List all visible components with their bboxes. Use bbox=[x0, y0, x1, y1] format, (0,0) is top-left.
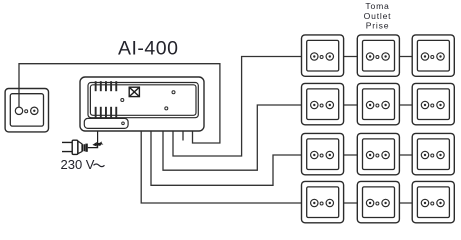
daisy-chain wires row 2 bbox=[344, 104, 413, 106]
amplifier screw hole A bbox=[121, 99, 124, 102]
output wire to outlet row 4 bbox=[141, 132, 301, 204]
amplifier crossed-box symbol bbox=[129, 87, 139, 96]
amplifier screw hole C bbox=[165, 107, 168, 110]
svg-text:AI-400: AI-400 bbox=[118, 38, 178, 60]
mains cord wire to amplifier bbox=[88, 132, 98, 148]
svg-text:Toma: Toma bbox=[365, 1, 389, 11]
TV outlet row 1 col 2 bbox=[357, 35, 399, 76]
TV outlet row 3 col 3 bbox=[412, 133, 454, 174]
TV outlet row 4 col 2 bbox=[357, 181, 399, 222]
TV outlet row 2 col 3 bbox=[412, 83, 454, 124]
TV outlet row 4 col 1 bbox=[302, 181, 344, 222]
mains plug P1 bbox=[62, 140, 87, 154]
svg-text:Outlet: Outlet bbox=[364, 11, 392, 21]
TV outlet row 3 col 1 bbox=[302, 133, 344, 174]
TV outlet row 2 col 1 bbox=[302, 83, 344, 124]
stub output wire bbox=[182, 132, 184, 141]
TV outlet row 3 col 2 bbox=[357, 133, 399, 174]
TV outlet row 1 col 1 bbox=[302, 35, 344, 76]
amplifier screw hole B bbox=[172, 91, 175, 94]
daisy-chain wires row 3 bbox=[344, 154, 413, 156]
antenna wall outlet W1 bbox=[5, 89, 48, 132]
wire from antenna wall outlet up over to amplifier input bbox=[19, 64, 220, 143]
svg-text:230 V: 230 V bbox=[61, 157, 95, 172]
daisy-chain wires row 1 bbox=[344, 56, 413, 58]
daisy-chain wires row 4 bbox=[344, 202, 413, 204]
TV outlet row 2 col 2 bbox=[357, 83, 399, 124]
amplifier U1 AI-400 body bbox=[80, 77, 204, 131]
output wire to outlet row 3 bbox=[151, 132, 302, 186]
TV outlet row 1 col 3 bbox=[412, 35, 454, 76]
output wire to outlet row 1 bbox=[173, 57, 302, 157]
amplifier bottom heatsink comb bbox=[95, 107, 118, 119]
TV outlet row 4 col 3 bbox=[412, 181, 454, 222]
amplifier top heatsink comb bbox=[95, 81, 118, 91]
svg-text:Prise: Prise bbox=[366, 21, 390, 31]
arrow on mains cord bbox=[92, 141, 103, 146]
amplifier label strip bbox=[84, 118, 128, 128]
output wire to outlet row 2 bbox=[163, 105, 302, 170]
